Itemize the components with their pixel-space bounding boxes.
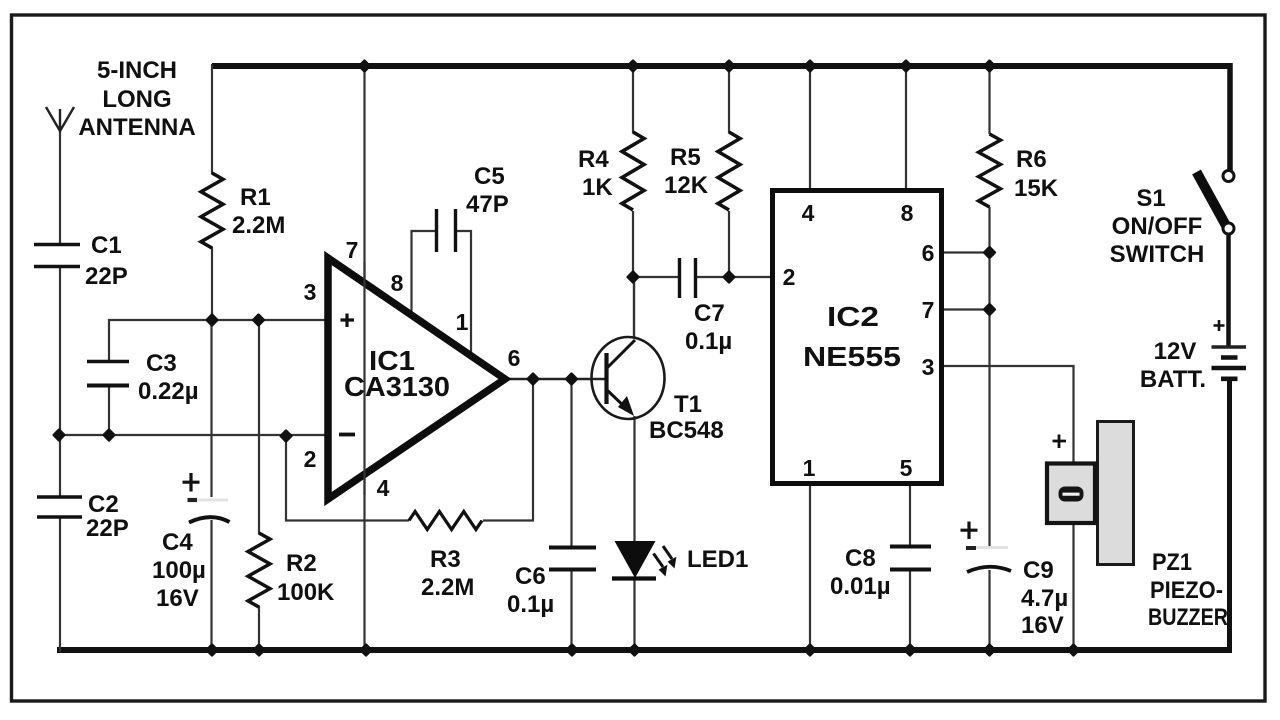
junction ground rail / PZ1 — [1068, 645, 1079, 656]
junction noninverting line / R2 — [253, 315, 264, 326]
wire inverting input line — [58, 434, 329, 436]
battery B1 12V — [1212, 320, 1247, 379]
C3 value label — [138, 350, 199, 405]
svg-text:R4: R4 — [578, 146, 609, 173]
antenna label — [78, 57, 195, 141]
svg-text:0.1µ: 0.1µ — [685, 328, 732, 355]
junction output / feedback — [528, 374, 539, 385]
svg-text:C5: C5 — [474, 163, 505, 190]
junction ground rail / C8 — [905, 645, 916, 656]
R1 value label — [232, 184, 285, 239]
C6 value label — [507, 563, 554, 618]
svg-text:4: 4 — [377, 475, 390, 501]
svg-text:C4: C4 — [162, 529, 193, 556]
capacitor C1 — [34, 245, 80, 267]
capacitor C6 — [549, 548, 596, 570]
svg-text:2: 2 — [783, 264, 796, 290]
svg-text:7: 7 — [922, 297, 935, 323]
svg-text:100µ: 100µ — [152, 557, 206, 584]
wire R4 bottom — [632, 211, 634, 278]
wire C7 right to IC2 pin 2 — [695, 276, 773, 278]
junction R4-collector / C7 — [628, 272, 639, 283]
wire piezo to ground rail — [1072, 523, 1074, 652]
resistor R2 — [248, 533, 270, 607]
R3 value label — [421, 546, 474, 601]
junction ground rail / IC2 pin1 — [805, 645, 816, 656]
junction ground rail / op-amp pin4 — [361, 645, 372, 656]
wire rail to switch S1 — [1227, 63, 1233, 171]
wire inverting node to R3 left — [286, 434, 409, 521]
T1 name label — [649, 391, 724, 444]
PZ1 name label — [1148, 549, 1228, 631]
junction inverting line / feedback — [281, 431, 292, 442]
svg-text:ON/OFF: ON/OFF — [1112, 213, 1203, 240]
op-amp U1 IC1 CA3130 triangle — [328, 258, 505, 499]
wire R1 top — [211, 64, 213, 174]
piezo buzzer PZ1 — [1047, 422, 1134, 565]
wire C4 bottom — [210, 520, 212, 652]
S1 name label — [1110, 185, 1205, 268]
svg-text:PIEZO-: PIEZO- — [1150, 577, 1223, 604]
wire IC2 pin 7 — [942, 308, 990, 310]
svg-text:C6: C6 — [515, 563, 546, 590]
svg-text:4: 4 — [802, 200, 815, 226]
svg-text:SWITCH: SWITCH — [1110, 241, 1205, 268]
wire noninverting input node — [109, 320, 329, 362]
wire R4 top — [632, 64, 634, 133]
wire C6 bottom — [570, 569, 572, 652]
capacitor C8 — [890, 547, 931, 570]
wire C7 left — [634, 276, 679, 278]
antenna — [46, 107, 74, 132]
junction ground rail / R2 — [254, 645, 265, 656]
svg-text:2: 2 — [304, 446, 317, 472]
junction ground rail / C6 — [567, 645, 578, 656]
svg-text:16V: 16V — [1021, 612, 1064, 639]
svg-text:0.22µ: 0.22µ — [138, 378, 199, 405]
junction noninverting line / R1-C4 — [207, 315, 218, 326]
transistor Q1 T1 BC548 — [592, 337, 665, 419]
svg-text:22P: 22P — [85, 263, 128, 290]
svg-text:R1: R1 — [240, 184, 271, 211]
wire IC2 pin 3 to piezo — [942, 366, 1074, 464]
svg-text:47P: 47P — [466, 191, 509, 218]
capacitor C3 — [87, 362, 129, 386]
svg-text:C7: C7 — [694, 300, 725, 327]
svg-text:T1: T1 — [674, 391, 702, 418]
svg-text:1K: 1K — [582, 174, 613, 201]
capacitor C2 — [37, 497, 82, 517]
wire R2 bottom — [258, 606, 260, 652]
svg-text:0.1µ: 0.1µ — [507, 591, 554, 618]
resistor R6 — [979, 134, 1001, 207]
resistor R4 — [622, 132, 644, 210]
C7 value label — [685, 300, 732, 355]
wire R6 top — [988, 64, 990, 134]
svg-text:16V: 16V — [156, 585, 199, 612]
svg-text:3: 3 — [922, 354, 935, 380]
svg-text:BC548: BC548 — [649, 417, 724, 444]
svg-text:BUZZER: BUZZER — [1148, 604, 1228, 631]
svg-text:6: 6 — [922, 240, 935, 266]
svg-text:C2: C2 — [88, 491, 119, 518]
capacitor C4 electrolytic — [183, 473, 230, 523]
wire antenna to C1 — [59, 128, 61, 245]
svg-text:8: 8 — [391, 270, 404, 296]
C8 value label — [830, 545, 891, 600]
C4 value label — [152, 529, 206, 612]
svg-text:1: 1 — [803, 455, 816, 481]
junction V+ rail / IC2 pin8 — [901, 61, 912, 72]
battery value label — [1140, 338, 1206, 393]
svg-text:100K: 100K — [277, 579, 335, 606]
svg-text:C1: C1 — [91, 232, 122, 259]
svg-text:LONG: LONG — [102, 86, 171, 113]
wire S1 to battery — [1226, 233, 1231, 346]
svg-text:R6: R6 — [1016, 146, 1047, 173]
svg-text:C9: C9 — [1023, 557, 1054, 584]
svg-text:LED1: LED1 — [687, 546, 748, 573]
wire C5 right to pin 1 — [455, 231, 471, 356]
wire C6 top — [570, 378, 572, 548]
svg-text:IC2: IC2 — [827, 301, 879, 332]
wire C3 to inverting line — [108, 385, 110, 437]
wire C8 bottom — [909, 569, 911, 652]
svg-text:R5: R5 — [670, 144, 701, 171]
svg-text:C3: C3 — [146, 350, 177, 377]
resistor R3 — [409, 511, 482, 529]
wire C9 bottom — [988, 570, 990, 652]
junction ground rail / C9 — [984, 645, 995, 656]
wire C1 to C2 — [59, 266, 61, 498]
junction inverting line / antenna column — [54, 430, 65, 441]
C2 value label — [86, 491, 129, 542]
R2 value label — [277, 550, 335, 606]
junction V+ rail / R6 — [984, 61, 995, 72]
svg-text:S1: S1 — [1136, 185, 1165, 212]
svg-text:C8: C8 — [845, 545, 876, 572]
svg-text:6: 6 — [508, 345, 521, 371]
svg-text:8: 8 — [901, 200, 914, 226]
wire C2 to ground rail — [59, 516, 61, 652]
junction V+ rail / R4 — [628, 61, 639, 72]
junction R6 / IC2 pin7 — [984, 304, 995, 315]
junction ground rail / LED1 — [629, 645, 640, 656]
svg-text:5: 5 — [900, 455, 913, 481]
wire T1 emitter down — [633, 416, 635, 543]
junction R6 / IC2 pin6 — [984, 247, 995, 258]
diode LED1 — [612, 541, 676, 579]
junction V+ rail / R5 — [724, 61, 735, 72]
switch S1 — [1197, 171, 1235, 235]
R5 value label — [664, 144, 709, 199]
svg-text:BATT.: BATT. — [1140, 366, 1206, 393]
wire R5 top — [728, 64, 730, 133]
wire output to R3 right — [483, 378, 533, 521]
wire op-amp output to T1 base — [505, 378, 605, 381]
svg-text:22P: 22P — [86, 515, 129, 542]
wire R2 top — [258, 319, 260, 534]
wire IC2 pin 4 — [809, 64, 811, 192]
svg-text:2.2M: 2.2M — [421, 574, 474, 601]
R4 value label — [578, 146, 613, 201]
svg-text:4.7µ: 4.7µ — [1021, 585, 1068, 612]
wire battery to ground rail — [1227, 379, 1232, 652]
wire V+ rail — [212, 63, 1231, 69]
wire R5 bottom — [728, 211, 730, 278]
capacitor C7 — [680, 258, 696, 298]
junction V+ rail / IC2 pin4 — [805, 61, 816, 72]
wire R6 to C9 — [988, 207, 990, 546]
svg-text:12V: 12V — [1154, 338, 1197, 365]
resistor R1 — [201, 173, 223, 248]
wire R1 bottom — [211, 247, 213, 321]
C9 value label — [1021, 557, 1068, 639]
wire C5 left to pin 8 — [412, 231, 438, 316]
svg-text:NE555: NE555 — [803, 341, 901, 372]
wire C4 top — [210, 319, 212, 497]
IC1 name label — [344, 345, 450, 402]
resistor R5 — [718, 132, 740, 210]
wire IC2 pin 5 to C8 — [909, 484, 911, 547]
junction R5 / C7-pin2 — [724, 272, 735, 283]
svg-text:3: 3 — [304, 279, 317, 305]
wire ground rail — [57, 647, 1232, 653]
wire IC2 pin 8 — [905, 64, 907, 192]
wire pin7 pin4 supply line — [363, 64, 365, 651]
IC2 NE555 box — [773, 191, 942, 484]
svg-text:PZ1: PZ1 — [1152, 549, 1192, 576]
C1 value label — [85, 232, 128, 290]
svg-text:15K: 15K — [1014, 175, 1059, 202]
junction output / C6 — [566, 374, 577, 385]
svg-text:5-INCH: 5-INCH — [97, 57, 177, 84]
svg-text:CA3130: CA3130 — [344, 371, 450, 402]
IC2 name label — [803, 301, 901, 372]
junction V+ rail / op-amp pin7 line — [359, 61, 370, 72]
C5 value label — [466, 163, 509, 218]
svg-text:2.2M: 2.2M — [232, 212, 285, 239]
junction ground rail / C4 — [207, 645, 218, 656]
wire IC2 pin 6 — [942, 251, 990, 253]
svg-text:1: 1 — [456, 309, 469, 335]
capacitor C5 — [437, 209, 456, 252]
svg-text:7: 7 — [346, 237, 359, 263]
wire T1 collector up — [633, 276, 635, 338]
svg-text:R3: R3 — [430, 546, 461, 573]
capacitor C9 electrolytic — [961, 522, 1012, 573]
supply line over triangle — [363, 262, 365, 495]
R6 value label — [1014, 146, 1059, 202]
junction inverting line / C3 — [104, 430, 115, 441]
svg-text:ANTENNA: ANTENNA — [78, 114, 195, 141]
wire LED1 to ground rail — [633, 578, 635, 652]
svg-text:R2: R2 — [286, 550, 317, 577]
svg-text:12K: 12K — [664, 172, 709, 199]
wire IC2 pin 1 to ground rail — [809, 484, 811, 652]
svg-text:0.01µ: 0.01µ — [830, 573, 891, 600]
